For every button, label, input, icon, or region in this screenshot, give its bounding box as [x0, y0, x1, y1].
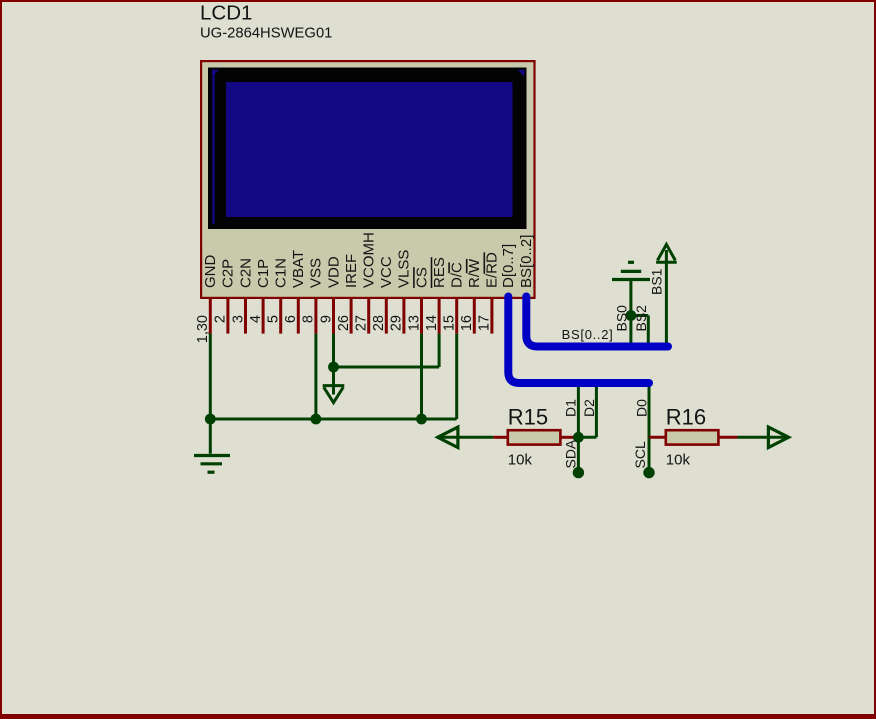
- LCD1 pin stub 14: [438, 298, 441, 334]
- LCD1 pin name VBAT: [290, 250, 307, 288]
- LCD1 pin name C1N: [273, 258, 290, 288]
- svg-text:D2: D2: [581, 399, 597, 417]
- R16 reference label: [666, 405, 706, 430]
- LCD1 pin number 17: [477, 315, 493, 331]
- wire BS0 up to ground: [629, 281, 632, 347]
- svg-text:IREF: IREF: [343, 254, 360, 288]
- wire pin1 GND down to ground: [209, 334, 212, 454]
- wire into down terminal: [332, 367, 335, 395]
- LCD1 pin stub 17: [490, 298, 493, 334]
- wire pin8 VSS down: [314, 334, 317, 419]
- svg-text:13: 13: [406, 315, 422, 331]
- svg-text:5: 5: [266, 315, 282, 323]
- LCD1 pin name E/RD: [484, 252, 501, 288]
- svg-text:SDA: SDA: [563, 439, 579, 468]
- svg-text:29: 29: [389, 315, 405, 331]
- LCD1 bus pin name BS[0..2]: [518, 235, 535, 288]
- svg-text:16: 16: [459, 315, 475, 331]
- LCD1 pin number 15: [442, 315, 458, 331]
- LCD1 pin stub 5: [279, 298, 282, 334]
- junction dot pin1/ground rail: [205, 414, 216, 425]
- LCD1 pin name C2N: [237, 258, 254, 288]
- junction dot VDD node: [328, 362, 339, 373]
- ground symbol on BS0 (inverted): [612, 262, 650, 279]
- svg-text:D/C: D/C: [449, 262, 466, 288]
- LCD1 pin stub 3: [244, 298, 247, 334]
- LCD1 pin stub 13: [420, 298, 423, 334]
- LCD1 pin number 26: [336, 315, 352, 331]
- bus BS[0..2]: [526, 297, 668, 347]
- svg-text:8: 8: [301, 315, 317, 323]
- LCD1 value label UG-2864HSWEG01: [200, 26, 332, 42]
- svg-text:6: 6: [283, 315, 299, 323]
- junction dot SDA node: [573, 432, 584, 443]
- LCD1 pin name VCC: [378, 256, 395, 288]
- net label BS1: [648, 268, 664, 295]
- svg-text:10k: 10k: [508, 452, 533, 469]
- bus label BS[0..2]: [562, 327, 614, 342]
- LCD1 pin stub 6: [297, 298, 300, 334]
- svg-text:C2P: C2P: [220, 259, 237, 288]
- wire BS1 up to power arrow: [665, 263, 668, 347]
- svg-text:4: 4: [248, 315, 264, 323]
- svg-text:R16: R16: [666, 405, 706, 430]
- wire D2 to SDA node: [578, 436, 596, 439]
- svg-text:UG-2864HSWEG01: UG-2864HSWEG01: [200, 26, 332, 42]
- net label D0: [633, 399, 649, 417]
- junction dot VSS/ground rail: [311, 414, 322, 425]
- svg-text:15: 15: [442, 315, 458, 331]
- LCD1 pin stub 4: [262, 298, 265, 334]
- LCD1 pin stub 9: [332, 298, 335, 334]
- ground symbol at pin1 net: [194, 456, 230, 473]
- LCD1 pin name VDD: [325, 256, 342, 288]
- LCD1 pin name C1P: [255, 259, 272, 288]
- wire VDD node horizontal: [334, 366, 440, 369]
- LCD1 pin number 3: [230, 315, 246, 323]
- svg-text:BS2: BS2: [633, 305, 649, 332]
- LCD1 screen bezel: [208, 68, 527, 230]
- svg-text:SCL: SCL: [632, 441, 648, 468]
- terminal (left arrow) SDA: [438, 427, 494, 447]
- LCD1 pin stub 29: [402, 298, 405, 334]
- terminal dot SCL bottom: [643, 467, 654, 478]
- LCD1 pin name RES: [431, 257, 448, 288]
- LCD1 screen area: [226, 82, 513, 217]
- wire R16 to right terminal: [737, 436, 788, 439]
- wire R15 to SDA node: [575, 436, 579, 439]
- resistor R15 lead right: [560, 436, 574, 439]
- svg-text:BS1: BS1: [648, 268, 664, 295]
- wire up to pin14 RES: [438, 334, 441, 367]
- OLED display U-body LCD1: [201, 61, 534, 298]
- svg-text:C1N: C1N: [273, 258, 290, 288]
- net label D1: [563, 399, 579, 417]
- svg-text:D0: D0: [633, 399, 649, 417]
- resistor R16 body: [666, 430, 719, 444]
- net label SDA: [563, 439, 579, 468]
- LCD1 pin number 9: [318, 315, 334, 323]
- wire D0/SCL down from bus: [648, 383, 651, 473]
- LCD1 pin stub 15: [455, 298, 458, 334]
- svg-text:VDD: VDD: [325, 256, 342, 288]
- terminal dot SDA bottom: [573, 467, 584, 478]
- svg-text:BS0: BS0: [614, 305, 630, 332]
- LCD1 pin stub 27: [367, 298, 370, 334]
- wire D2 down from bus: [595, 383, 598, 437]
- LCD1 pin name D/C: [449, 262, 466, 288]
- LCD1 screen bevel line: [212, 70, 524, 225]
- LCD1 pin number 28: [371, 315, 387, 331]
- net label D2: [581, 399, 597, 417]
- LCD1 bus pin name D[0..7]: [500, 244, 517, 288]
- LCD1 pin number 29: [389, 315, 405, 331]
- svg-text:VCC: VCC: [378, 256, 395, 288]
- LCD1 pin stub 16: [473, 298, 476, 334]
- svg-text:C1P: C1P: [255, 259, 272, 288]
- svg-text:26: 26: [336, 315, 352, 331]
- R15 value label 10k: [508, 452, 533, 469]
- LCD1 pin number 16: [459, 315, 475, 331]
- wire BS2 down to bus: [647, 316, 650, 347]
- svg-text:D1: D1: [563, 399, 579, 417]
- wire ground rail horizontal: [210, 418, 456, 421]
- LCD1 pin stub 1,30: [209, 298, 212, 334]
- svg-text:9: 9: [318, 315, 334, 323]
- resistor R16 lead right: [718, 436, 737, 439]
- svg-text:2: 2: [213, 315, 229, 323]
- svg-text:GND: GND: [202, 255, 219, 289]
- LCD1 pin name VLSS: [396, 250, 413, 288]
- wire rail up to pin15 D/C: [455, 334, 458, 419]
- LCD1 pin name VSS: [308, 258, 325, 288]
- wire D1 down from bus: [577, 383, 580, 473]
- bus D[0..7]: [508, 297, 649, 384]
- LCD1 pin name CS: [413, 267, 430, 288]
- svg-text:17: 17: [477, 315, 493, 331]
- wire pin9 VDD down: [332, 334, 335, 367]
- svg-text:CS: CS: [413, 267, 430, 288]
- LCD1 pin number 8: [301, 315, 317, 323]
- resistor R15 lead left: [493, 436, 508, 439]
- svg-text:28: 28: [371, 315, 387, 331]
- LCD1 pin name VCOMH: [361, 232, 378, 288]
- svg-text:E/RD: E/RD: [484, 252, 501, 288]
- terminal (down arrow) at VDD node: [323, 386, 345, 403]
- wire pin13 CS down: [420, 334, 423, 419]
- resistor R15 body: [508, 430, 561, 444]
- LCD1 pin stub 8: [314, 298, 317, 334]
- svg-text:D[0..7]: D[0..7]: [500, 244, 517, 288]
- junction dot CS/ground rail: [416, 414, 427, 425]
- svg-text:1,30: 1,30: [195, 315, 211, 343]
- LCD1 pin number 13: [406, 315, 422, 331]
- LCD1 pin number 5: [266, 315, 282, 323]
- svg-text:VSS: VSS: [308, 258, 325, 288]
- svg-text:BS[0..2]: BS[0..2]: [518, 235, 535, 288]
- LCD1 pin name GND: [202, 255, 219, 289]
- LCD1 pin name R/W: [466, 258, 483, 288]
- junction dot BS0/BS2: [626, 310, 637, 321]
- wire BS2 junction horizontal: [631, 314, 648, 317]
- LCD1 reference label: [200, 2, 252, 25]
- LCD1 pin number 2: [213, 315, 229, 323]
- LCD1 pin name IREF: [343, 254, 360, 288]
- LCD1 pin number 27: [354, 315, 370, 331]
- svg-text:BS[0..2]: BS[0..2]: [562, 327, 614, 342]
- svg-text:RES: RES: [431, 257, 448, 288]
- svg-text:VBAT: VBAT: [290, 250, 307, 288]
- R16 value label 10k: [666, 452, 691, 469]
- svg-text:10k: 10k: [666, 452, 691, 469]
- LCD1 pin name C2P: [220, 259, 237, 288]
- power terminal (up arrow) BS1: [656, 244, 677, 262]
- net label BS0: [614, 305, 630, 332]
- svg-text:27: 27: [354, 315, 370, 331]
- svg-text:14: 14: [424, 315, 440, 331]
- svg-text:R/W: R/W: [466, 258, 483, 288]
- net label SCL: [632, 441, 648, 468]
- LCD1 pin stub 28: [385, 298, 388, 334]
- svg-text:R15: R15: [508, 405, 548, 430]
- R15 reference label: [508, 405, 548, 430]
- LCD1 pin stub 26: [350, 298, 353, 334]
- net label BS2: [633, 305, 649, 332]
- svg-text:C2N: C2N: [237, 258, 254, 288]
- LCD1 pin number 4: [248, 315, 264, 323]
- svg-text:3: 3: [230, 315, 246, 323]
- svg-text:VCOMH: VCOMH: [361, 232, 378, 288]
- svg-text:LCD1: LCD1: [200, 2, 252, 25]
- LCD1 pin number 1,30: [195, 315, 211, 343]
- LCD1 pin number 14: [424, 315, 440, 331]
- resistor R16 lead left: [649, 436, 666, 439]
- LCD1 pin stub 2: [226, 298, 229, 334]
- svg-text:VLSS: VLSS: [396, 250, 413, 288]
- terminal (right arrow): [768, 427, 788, 447]
- LCD1 pin number 6: [283, 315, 299, 323]
